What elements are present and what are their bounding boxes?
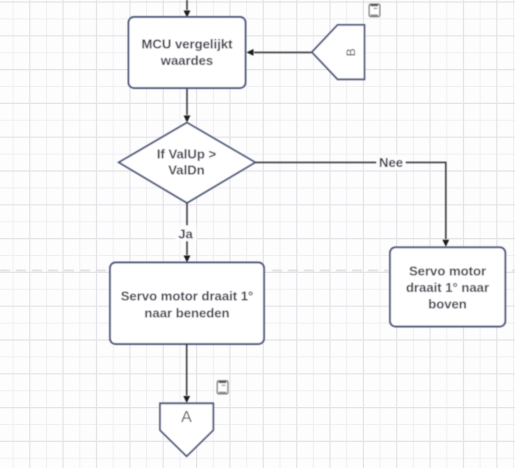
decision diamond If ValUp > ValDn [119,123,255,203]
svg-text:MCU vergelijkt: MCU vergelijkt [142,37,234,52]
svg-text:B: B [344,48,358,56]
page icon near A [217,381,228,394]
svg-text:Nee: Nee [379,155,403,170]
wire: beneden box to off-page connector A [183,344,190,403]
wire: arrow from top into MCU box [184,0,191,18]
svg-text:A: A [181,409,192,426]
wire: off-page connector B to MCU box [247,49,312,56]
svg-text:Servo motor: Servo motor [409,264,486,279]
wire: MCU box to decision diamond [184,88,191,123]
svg-text:boven: boven [428,297,467,312]
wire: Ja branch (diamond bottom to beneden box) [184,203,191,263]
process box MCU vergelijkt waardes [129,17,246,88]
svg-text:waardes: waardes [160,53,213,68]
off-page connector A [160,403,213,456]
off-page connector B [312,25,365,79]
label Nee [377,155,406,170]
wire: Nee branch (diamond right, over and down to boven box) [255,162,449,246]
svg-text:Ja: Ja [178,227,193,242]
svg-text:naar beneden: naar beneden [144,306,229,321]
page icon top right [369,4,380,16]
svg-text:Servo motor draait 1°: Servo motor draait 1° [121,289,254,304]
svg-text:If ValUp >: If ValUp > [157,146,217,161]
label Ja [176,226,197,242]
page break dashed line [0,270,515,272]
process box Servo motor draait 1 naar boven [390,247,505,326]
svg-text:ValDn: ValDn [168,163,204,178]
svg-text:draait 1° naar: draait 1° naar [406,280,489,295]
process box Servo motor draait 1 naar beneden [110,263,264,345]
